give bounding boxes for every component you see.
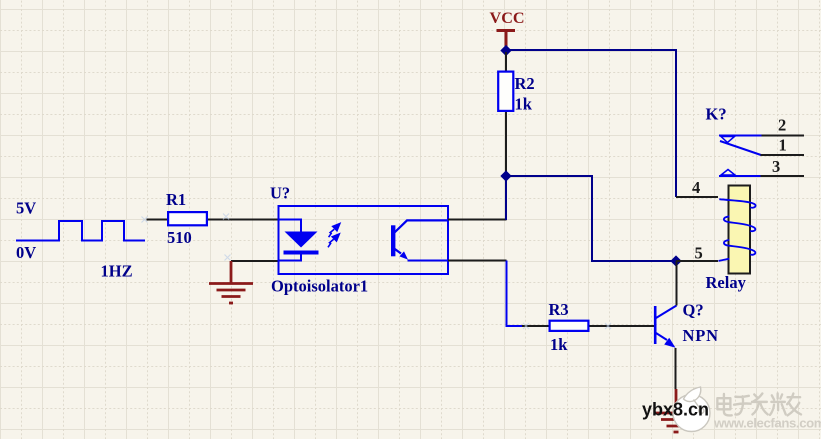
- wire Q collector up to node: [676, 261, 678, 306]
- wire VCC node to relay column: [506, 50, 676, 197]
- transistor (photo) of optoisolator: [391, 225, 395, 256]
- light emission arrows: [328, 224, 340, 248]
- svg-text:4: 4: [692, 178, 700, 197]
- ground (left): [209, 261, 253, 303]
- svg-text:www.elecfans.com: www.elecfans.com: [713, 416, 821, 431]
- ground (under transistor): [654, 389, 698, 432]
- resistor R2: [505, 52, 507, 71]
- svg-text:Q?: Q?: [683, 301, 704, 320]
- svg-text:1k: 1k: [515, 95, 533, 114]
- contact triangle pin2: [721, 137, 735, 143]
- svg-text:1k: 1k: [550, 335, 568, 354]
- svg-text:510: 510: [167, 228, 192, 247]
- contact triangle pin3: [721, 170, 735, 176]
- wire opto collector to node: [448, 219, 507, 221]
- wire opto emitter out: [448, 260, 507, 262]
- svg-text:Relay: Relay: [706, 273, 747, 292]
- wire node to relay coil pin5: [676, 260, 718, 262]
- optoisolator U1 body: [279, 206, 449, 274]
- relay coil body: [729, 186, 751, 274]
- transistor Q?: [654, 306, 657, 344]
- resistor R3: [522, 325, 549, 327]
- waveform graphic (5V/0V square wave): [16, 221, 145, 241]
- svg-text:1: 1: [779, 136, 787, 155]
- wire R3 to base: [590, 325, 655, 327]
- svg-text:3: 3: [772, 157, 780, 176]
- svg-text:Optoisolator1: Optoisolator1: [271, 277, 368, 296]
- watermark logo circle: [673, 387, 710, 432]
- svg-text:5V: 5V: [16, 199, 36, 218]
- pin 1 common + armature: [720, 141, 761, 155]
- node VCC junction: [500, 45, 511, 56]
- svg-text:VCC: VCC: [490, 9, 525, 27]
- wire Q emitter down: [675, 348, 677, 389]
- svg-text:2: 2: [778, 116, 786, 135]
- resistor R1: [168, 212, 207, 225]
- pin 3 contact line: [719, 175, 761, 177]
- diode D (LED) of optoisolator: [279, 220, 302, 261]
- node R2 bottom junction: [500, 170, 511, 181]
- wire ground to optoisolator cathode: [231, 260, 279, 262]
- relay coil winding: [719, 199, 756, 261]
- svg-text:5: 5: [695, 244, 703, 263]
- pin 2 contact line: [719, 135, 762, 137]
- wire endpoint marks: [142, 214, 612, 330]
- wire R2 bottom: [505, 112, 507, 176]
- wire source to R1: [147, 219, 168, 221]
- wire junction to relay/transistor node: [506, 176, 676, 261]
- svg-text:ybx8.cn: ybx8.cn: [642, 400, 709, 420]
- svg-text:R2: R2: [515, 74, 535, 93]
- watermark chinese characters: [717, 394, 801, 416]
- svg-text:NPN: NPN: [683, 326, 719, 345]
- svg-text:1HZ: 1HZ: [101, 262, 133, 281]
- svg-text:0V: 0V: [16, 243, 36, 262]
- svg-text:K?: K?: [706, 105, 727, 124]
- node pin5 junction: [670, 255, 681, 266]
- wire emitter down to R3: [507, 261, 523, 327]
- wire R1 to optoisolator: [208, 219, 279, 221]
- svg-text:U?: U?: [270, 184, 290, 203]
- wire junction down to opto collector: [505, 176, 507, 220]
- svg-text:R1: R1: [166, 190, 186, 209]
- svg-text:R3: R3: [549, 300, 569, 319]
- wire to relay coil pin4: [676, 196, 718, 198]
